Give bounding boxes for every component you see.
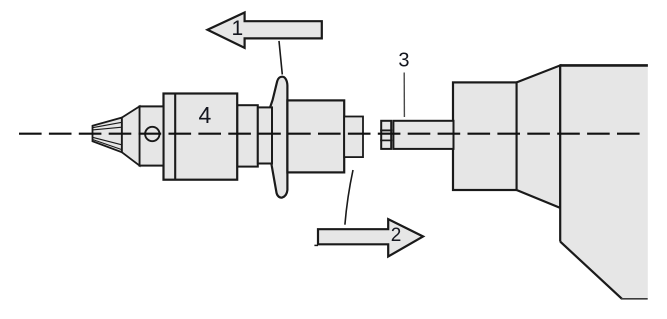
- machine body front block: [453, 82, 517, 190]
- svg-text:3: 3: [398, 50, 409, 72]
- chuck collar section A: [237, 105, 258, 166]
- chuck body band line: [174, 94, 176, 180]
- arrow 2 block arrow right: [318, 219, 423, 256]
- leader line 2: [345, 170, 353, 225]
- chuck rear sleeve: [287, 100, 344, 172]
- chuck flange collar: [269, 77, 288, 198]
- thread line lower: [380, 139, 392, 141]
- thread line upper: [380, 129, 392, 131]
- svg-text:1: 1: [232, 17, 244, 40]
- machine body main housing fill: [560, 65, 648, 298]
- centerline dashed axis: [19, 133, 640, 135]
- svg-text:2: 2: [391, 225, 402, 246]
- chuck body 4: [164, 94, 238, 180]
- arrow 1 block arrow left: [208, 13, 322, 48]
- spindle threaded end: [381, 121, 391, 149]
- machine body main housing left edge: [559, 64, 561, 241]
- chuck key hole: [145, 127, 159, 141]
- chuck groove section B: [258, 107, 272, 163]
- chuck rear stub: [344, 117, 363, 158]
- jaw line 3: [93, 137, 122, 145]
- arrow 2 tail tick: [314, 244, 318, 246]
- chuck front cylinder: [140, 106, 164, 165]
- svg-text:4: 4: [199, 102, 212, 128]
- spindle shaft 3: [393, 121, 453, 149]
- jaw line 1: [93, 122, 122, 127]
- chuck nose cone: [122, 106, 140, 165]
- leader line 3: [403, 73, 405, 118]
- jaw line 2: [93, 127, 122, 130]
- leader line 1: [279, 41, 282, 75]
- jaw line 4: [93, 140, 122, 150]
- chuck jaws: [93, 118, 122, 153]
- machine body chamfer edge: [560, 242, 622, 299]
- machine body bottom edge: [621, 298, 648, 300]
- machine body transition cone: [517, 65, 561, 208]
- machine body main housing top edge: [560, 64, 648, 67]
